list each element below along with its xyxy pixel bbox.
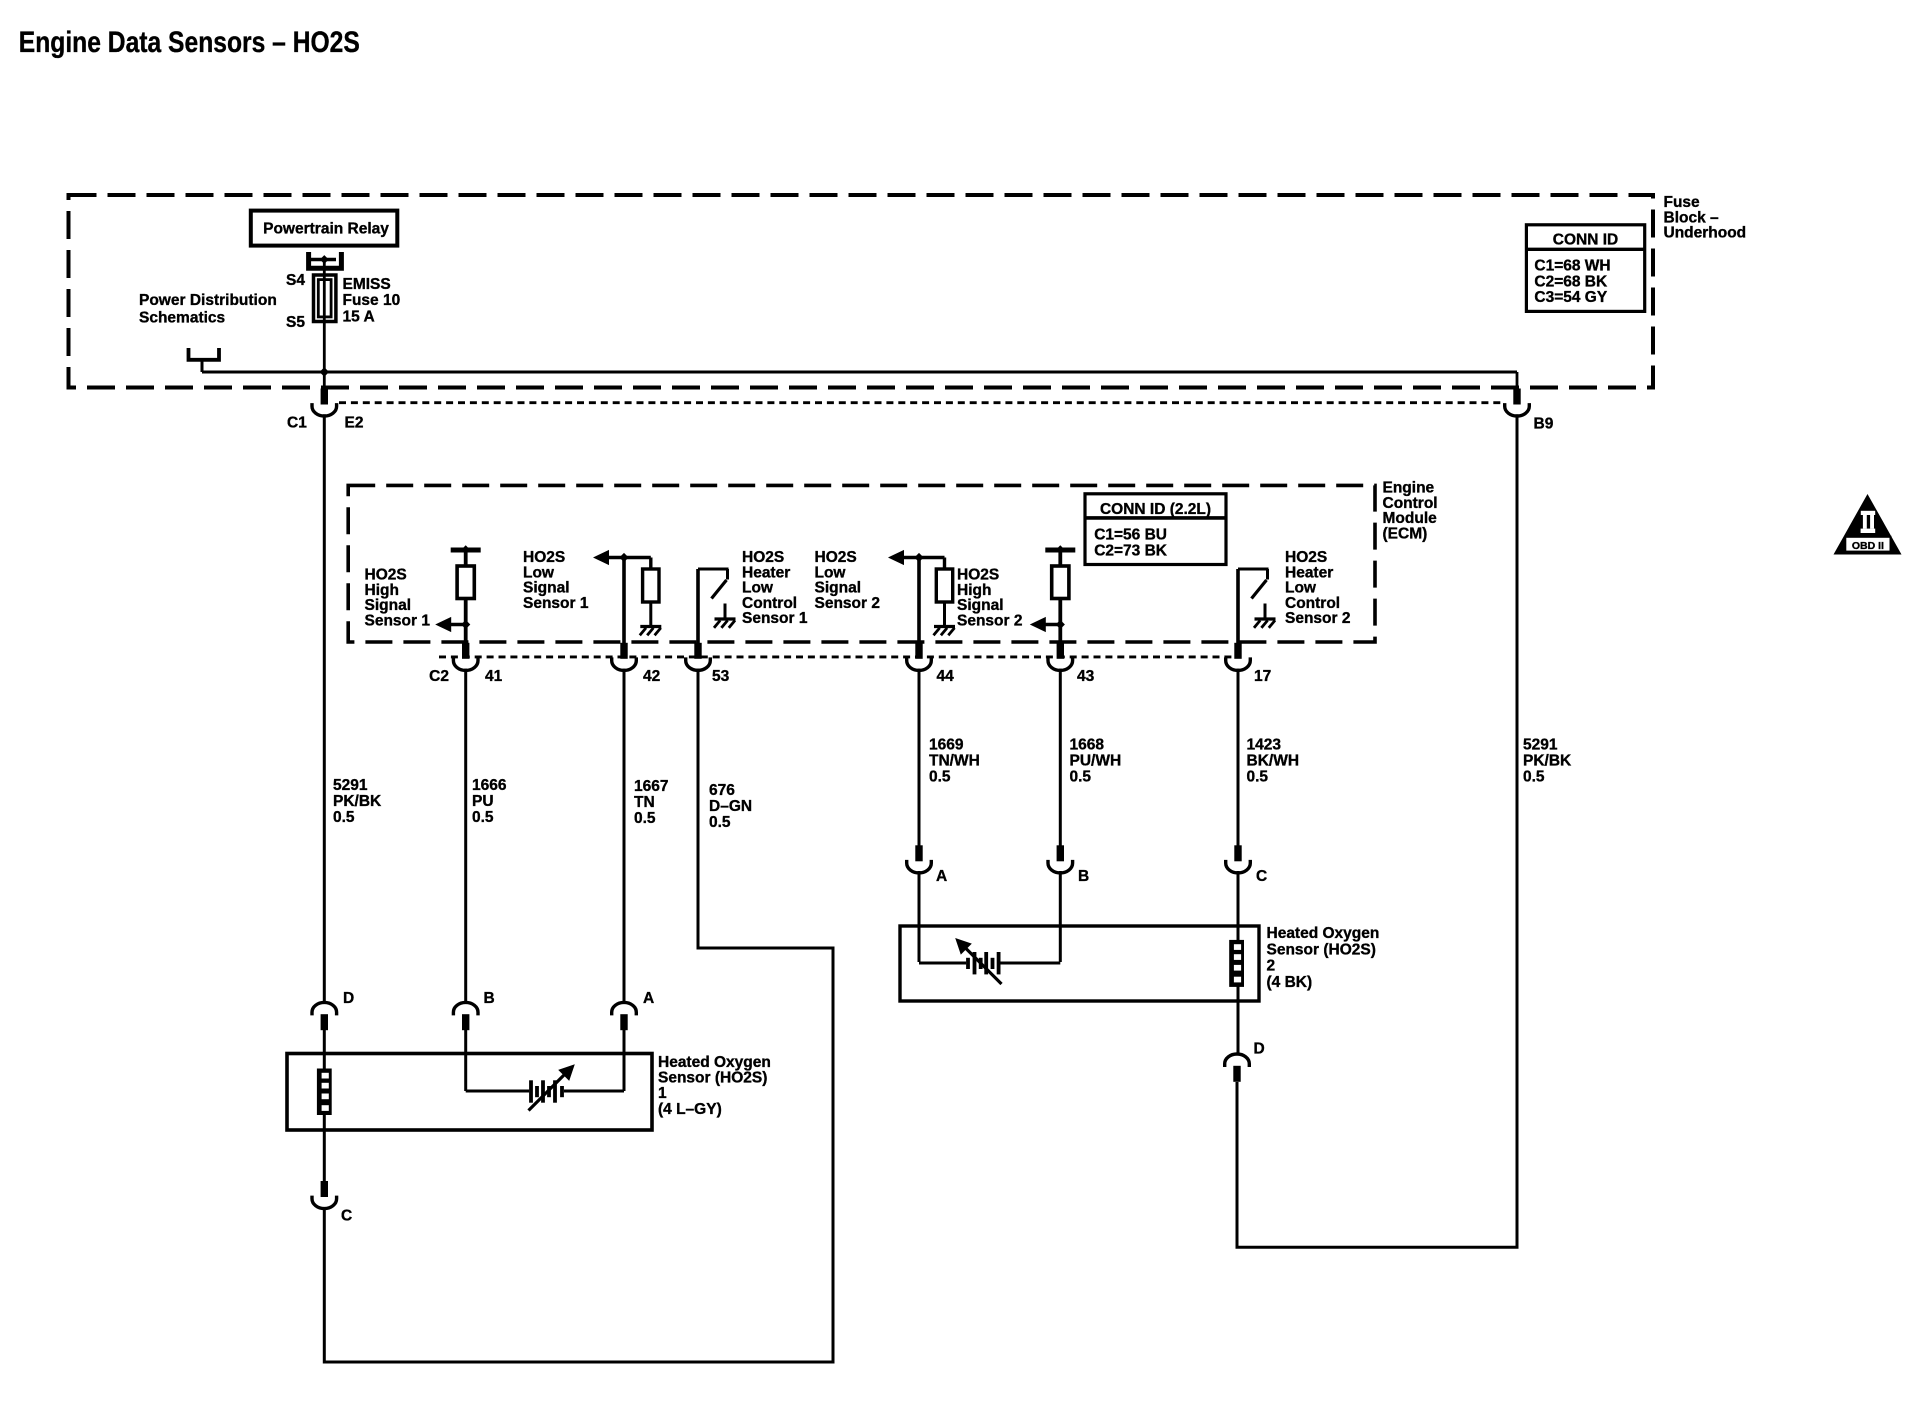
- svg-text:44: 44: [937, 668, 955, 685]
- svg-text:S4: S4: [286, 272, 305, 289]
- svg-text:C2=73 BK: C2=73 BK: [1094, 543, 1168, 560]
- svg-text:0.5: 0.5: [1070, 769, 1092, 786]
- svg-text:Engine Data Sensors – HO2S: Engine Data Sensors – HO2S: [19, 26, 360, 59]
- svg-text:A: A: [936, 868, 947, 885]
- svg-text:15 A: 15 A: [343, 308, 375, 325]
- svg-text:0.5: 0.5: [1523, 769, 1545, 786]
- svg-text:1667: 1667: [634, 778, 668, 795]
- svg-text:0.5: 0.5: [1247, 769, 1269, 786]
- svg-text:0.5: 0.5: [634, 810, 656, 827]
- svg-text:CONN ID (2.2L): CONN ID (2.2L): [1100, 501, 1211, 518]
- svg-text:5291: 5291: [333, 777, 368, 794]
- svg-text:C1=56 BU: C1=56 BU: [1094, 527, 1167, 544]
- svg-text:BK/WH: BK/WH: [1247, 753, 1300, 770]
- svg-text:PK/BK: PK/BK: [333, 793, 382, 810]
- svg-text:B: B: [1078, 868, 1089, 885]
- svg-text:Schematics: Schematics: [139, 310, 225, 327]
- svg-text:1666: 1666: [472, 777, 507, 794]
- svg-text:(4 BK): (4 BK): [1267, 974, 1313, 991]
- svg-text:C1: C1: [287, 415, 307, 432]
- svg-text:S5: S5: [286, 314, 305, 331]
- svg-text:C1=68 WH: C1=68 WH: [1534, 258, 1610, 275]
- svg-text:Underhood: Underhood: [1664, 225, 1747, 242]
- svg-text:(4 L–GY): (4 L–GY): [658, 1101, 722, 1118]
- svg-text:1423: 1423: [1247, 737, 1282, 754]
- svg-text:Sensor (HO2S): Sensor (HO2S): [1267, 941, 1376, 958]
- svg-text:Fuse 10: Fuse 10: [343, 292, 401, 309]
- svg-text:EMISS: EMISS: [343, 276, 391, 293]
- svg-text:17: 17: [1254, 668, 1271, 685]
- svg-text:41: 41: [485, 668, 503, 685]
- svg-text:43: 43: [1077, 668, 1095, 685]
- svg-text:OBD II: OBD II: [1852, 540, 1884, 552]
- svg-text:5291: 5291: [1523, 737, 1558, 754]
- svg-text:D–GN: D–GN: [709, 798, 752, 815]
- svg-text:PU: PU: [472, 793, 494, 810]
- svg-text:Heated Oxygen: Heated Oxygen: [658, 1054, 771, 1071]
- svg-text:2: 2: [1267, 958, 1276, 975]
- svg-text:Sensor 2: Sensor 2: [957, 612, 1022, 629]
- svg-text:D: D: [1254, 1041, 1265, 1058]
- svg-text:TN: TN: [634, 794, 655, 811]
- svg-text:D: D: [343, 990, 354, 1007]
- svg-text:53: 53: [712, 668, 730, 685]
- svg-text:676: 676: [709, 782, 735, 799]
- svg-text:PK/BK: PK/BK: [1523, 753, 1572, 770]
- svg-text:Sensor 2: Sensor 2: [1285, 610, 1350, 627]
- svg-text:1669: 1669: [929, 737, 964, 754]
- svg-text:0.5: 0.5: [929, 769, 951, 786]
- svg-text:B9: B9: [1534, 416, 1554, 433]
- svg-text:Sensor 1: Sensor 1: [742, 610, 808, 627]
- svg-text:1: 1: [658, 1085, 667, 1102]
- svg-text:C2=68 BK: C2=68 BK: [1534, 273, 1608, 290]
- svg-text:B: B: [484, 990, 495, 1007]
- svg-text:(ECM): (ECM): [1383, 525, 1428, 542]
- svg-text:42: 42: [643, 668, 660, 685]
- svg-text:Sensor 2: Sensor 2: [815, 595, 880, 612]
- svg-text:Sensor (HO2S): Sensor (HO2S): [658, 1070, 767, 1087]
- svg-text:Sensor 1: Sensor 1: [523, 595, 589, 612]
- svg-text:0.5: 0.5: [333, 809, 355, 826]
- svg-text:CONN ID: CONN ID: [1553, 232, 1618, 249]
- svg-text:0.5: 0.5: [709, 814, 731, 831]
- svg-text:Power Distribution: Power Distribution: [139, 292, 277, 309]
- svg-text:C: C: [341, 1208, 352, 1225]
- svg-text:A: A: [643, 990, 654, 1007]
- svg-text:Sensor 1: Sensor 1: [365, 612, 431, 629]
- svg-text:TN/WH: TN/WH: [929, 753, 980, 770]
- svg-text:1668: 1668: [1070, 737, 1105, 754]
- svg-text:0.5: 0.5: [472, 809, 494, 826]
- svg-text:Powertrain Relay: Powertrain Relay: [263, 221, 389, 238]
- svg-text:E2: E2: [345, 415, 364, 432]
- svg-text:Heated Oxygen: Heated Oxygen: [1267, 925, 1380, 942]
- svg-text:PU/WH: PU/WH: [1070, 753, 1122, 770]
- svg-text:C: C: [1256, 868, 1267, 885]
- svg-text:C2: C2: [429, 668, 449, 685]
- svg-text:C3=54 GY: C3=54 GY: [1534, 289, 1607, 306]
